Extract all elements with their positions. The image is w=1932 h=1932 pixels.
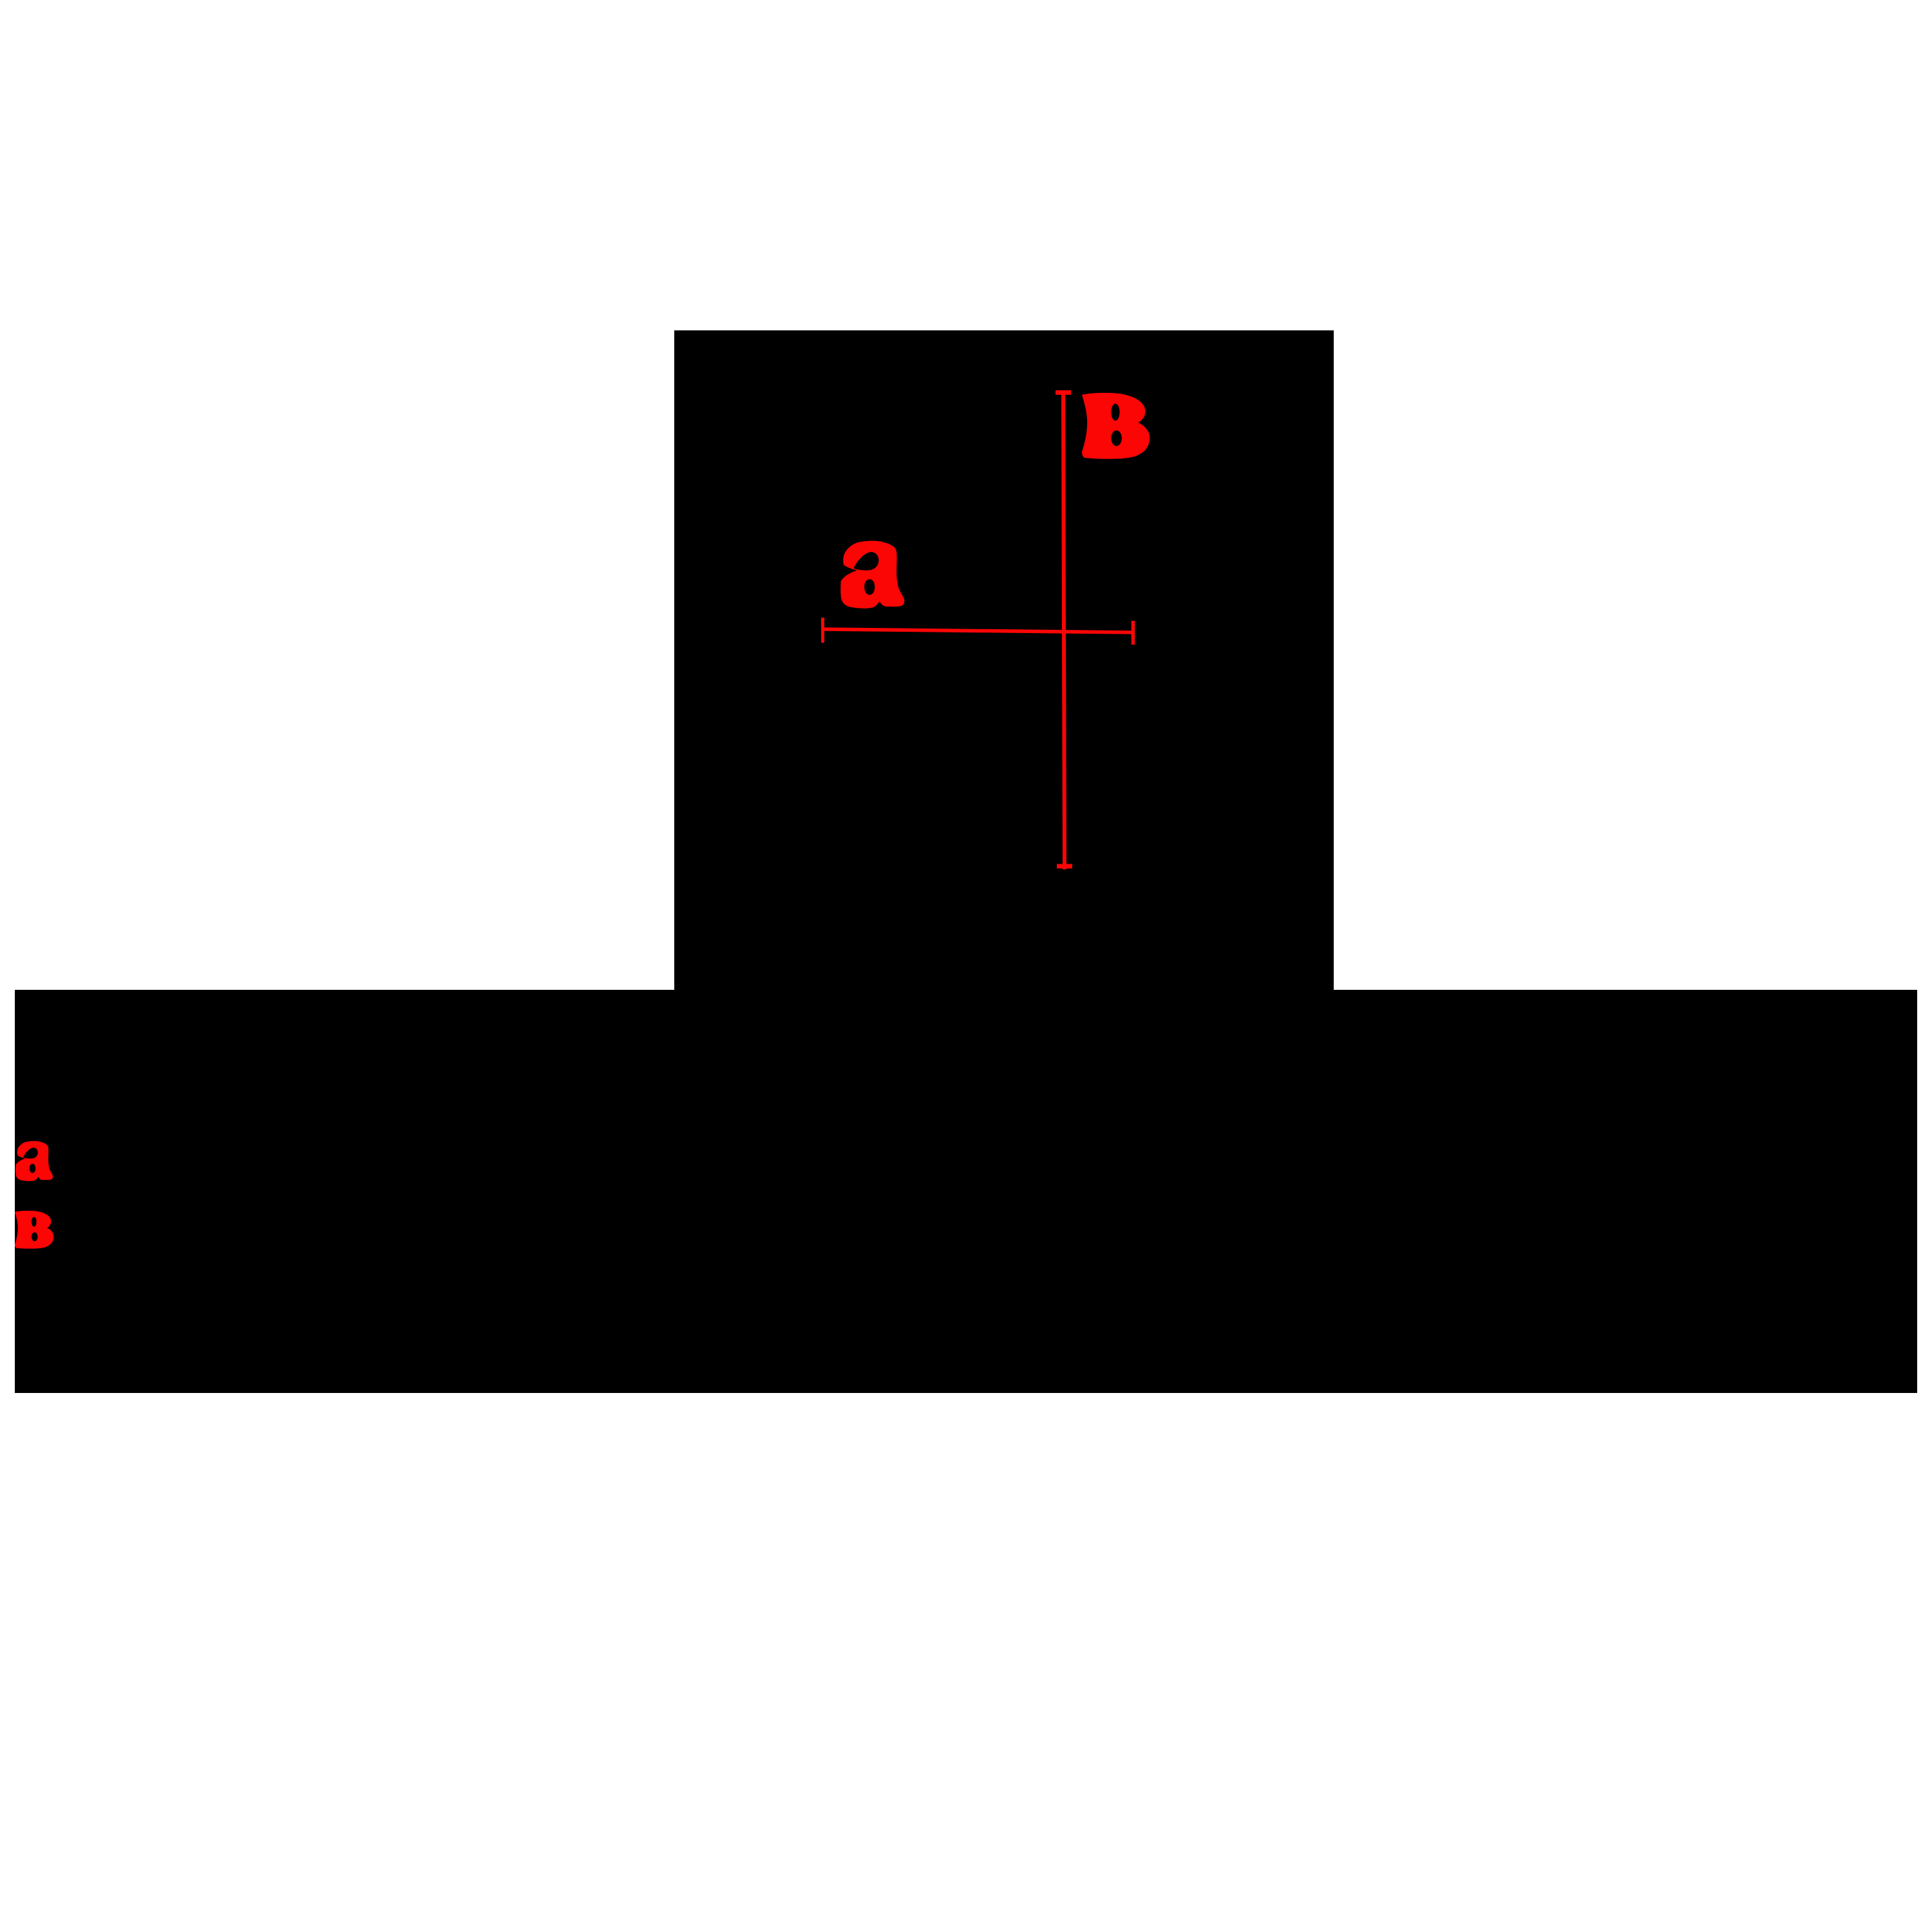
label b (small red letter on left of flange) — [15, 1211, 53, 1249]
T-profile flange (horizontal black bar) — [15, 990, 1917, 1393]
label a (small red letter on left of flange) — [15, 1141, 53, 1181]
dimension line a (horizontal red line) — [822, 629, 1133, 632]
tick at right end of dimension a — [1132, 621, 1135, 645]
dimension line b (vertical red line) — [1063, 392, 1065, 869]
tick at top end of dimension b — [1056, 390, 1071, 395]
label b (big red letter beside vertical dimension) — [1082, 393, 1150, 459]
tick at left end of dimension a — [821, 618, 824, 643]
T-profile web (vertical black rectangle) — [674, 330, 1334, 990]
label a (big red letter over horizontal dimension) — [840, 541, 904, 609]
tick at bottom end of dimension b — [1057, 864, 1072, 869]
